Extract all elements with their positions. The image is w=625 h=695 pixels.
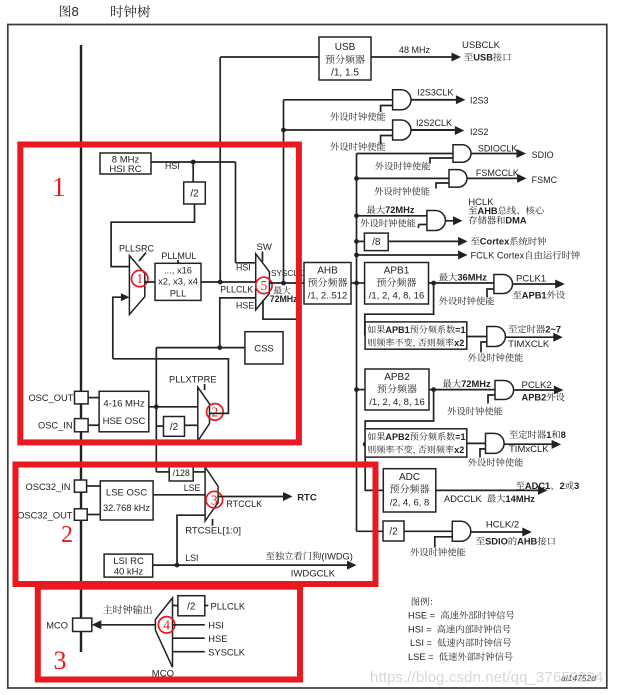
- svg-text:4: 4: [163, 617, 170, 632]
- svg-text:PLLCLK: PLLCLK: [211, 601, 246, 611]
- svg-text:SW: SW: [257, 242, 272, 253]
- svg-text:,: ,: [413, 445, 416, 455]
- svg-text:RTC: RTC: [297, 492, 317, 503]
- svg-text:OSC_OUT: OSC_OUT: [28, 393, 73, 403]
- svg-text:I2S2CLK: I2S2CLK: [416, 118, 452, 128]
- svg-text:SDIO: SDIO: [485, 537, 508, 547]
- svg-text:USB: USB: [335, 42, 356, 53]
- svg-text:/2: /2: [190, 189, 199, 200]
- svg-text:I2S3CLK: I2S3CLK: [417, 87, 453, 97]
- svg-text:ADC1: ADC1: [525, 481, 550, 491]
- svg-text:/2: /2: [170, 422, 179, 433]
- svg-text:DMA: DMA: [505, 216, 526, 226]
- svg-text:Cortex: Cortex: [480, 237, 510, 247]
- svg-text:14MHz: 14MHz: [505, 494, 535, 504]
- svg-text:AHB: AHB: [317, 266, 338, 277]
- svg-text:36MHz: 36MHz: [457, 273, 487, 283]
- svg-text:72MHz: 72MHz: [385, 205, 415, 215]
- svg-text:LSI =: LSI =: [410, 638, 432, 648]
- svg-text:/1, 2, 4, 8, 16: /1, 2, 4, 8, 16: [369, 291, 424, 302]
- svg-text:72MHz: 72MHz: [270, 294, 298, 304]
- svg-text:3: 3: [211, 492, 218, 507]
- svg-text:x2: x2: [454, 338, 464, 348]
- svg-text:3: 3: [574, 481, 579, 491]
- svg-text:8: 8: [561, 430, 566, 440]
- svg-text:APB2: APB2: [384, 372, 410, 383]
- svg-text:,: ,: [413, 338, 416, 348]
- svg-text:FSMC: FSMC: [532, 175, 558, 185]
- svg-text:/8: /8: [372, 237, 381, 248]
- svg-text:/128: /128: [173, 468, 190, 478]
- svg-text:PCLK1: PCLK1: [516, 274, 546, 285]
- svg-text:2: 2: [61, 522, 73, 548]
- svg-text:TIMxCLK: TIMxCLK: [509, 444, 549, 455]
- svg-text:/1, 1.5: /1, 1.5: [331, 68, 359, 79]
- svg-text:48 MHz: 48 MHz: [399, 45, 431, 55]
- svg-text:HSI: HSI: [236, 263, 251, 273]
- svg-text:LSE OSC: LSE OSC: [106, 488, 147, 499]
- svg-text:ai14752d: ai14752d: [561, 673, 596, 683]
- svg-text:MCO: MCO: [46, 621, 68, 631]
- svg-text:(IWDG): (IWDG): [321, 551, 353, 561]
- svg-text:HSI RC: HSI RC: [109, 164, 141, 175]
- svg-text:PLLXTPRE: PLLXTPRE: [169, 375, 217, 385]
- svg-text:4-16 MHz: 4-16 MHz: [103, 399, 144, 410]
- svg-text:USB: USB: [473, 53, 493, 63]
- svg-text:I2S3: I2S3: [470, 95, 489, 105]
- svg-text:HSI: HSI: [165, 161, 180, 171]
- svg-text:PCLK2: PCLK2: [522, 380, 552, 391]
- svg-text:/1, 2..512: /1, 2..512: [308, 291, 348, 302]
- svg-text:SDIOCLK: SDIOCLK: [478, 143, 518, 153]
- svg-text:PLLSRC: PLLSRC: [119, 244, 155, 254]
- svg-text:APB1: APB1: [384, 266, 410, 277]
- svg-text:LSI: LSI: [185, 553, 198, 563]
- svg-text:=1: =1: [455, 432, 465, 442]
- svg-text:USBCLK: USBCLK: [462, 40, 501, 51]
- svg-text:FSMCCLK: FSMCCLK: [476, 168, 519, 178]
- svg-text:HSE =: HSE =: [408, 611, 435, 621]
- svg-text:RTCSEL[1:0]: RTCSEL[1:0]: [185, 526, 241, 537]
- svg-text:APB2: APB2: [522, 392, 547, 402]
- svg-text:3: 3: [54, 646, 67, 675]
- svg-text:40 kHz: 40 kHz: [114, 567, 144, 578]
- svg-text:PLLMUL: PLLMUL: [161, 251, 196, 261]
- svg-text:LSE =: LSE =: [408, 652, 434, 662]
- svg-text:x2, x3, x4: x2, x3, x4: [158, 277, 198, 287]
- svg-text:2~7: 2~7: [545, 325, 561, 335]
- svg-text:HSE: HSE: [236, 301, 254, 311]
- svg-text:1: 1: [136, 271, 143, 286]
- svg-text:1: 1: [546, 430, 551, 440]
- svg-text:RTCCLK: RTCCLK: [226, 499, 262, 509]
- svg-text:I2S2: I2S2: [470, 127, 489, 137]
- svg-text:HSI: HSI: [208, 621, 224, 631]
- svg-text:32.768 kHz: 32.768 kHz: [103, 503, 150, 513]
- svg-text:HSE OSC: HSE OSC: [103, 416, 146, 427]
- svg-text:OSC32_OUT: OSC32_OUT: [17, 511, 73, 521]
- svg-text:FCLK Cortex: FCLK Cortex: [471, 251, 525, 261]
- svg-text:SDIO: SDIO: [532, 150, 554, 160]
- svg-text:HSI =: HSI =: [408, 625, 432, 635]
- svg-text:APB1: APB1: [385, 325, 409, 335]
- svg-text:APB2: APB2: [385, 432, 409, 442]
- svg-text:PLL: PLL: [170, 289, 187, 299]
- svg-text:1: 1: [52, 172, 66, 202]
- svg-text:/2: /2: [187, 602, 196, 613]
- svg-text:/2: /2: [389, 527, 398, 538]
- svg-text:/1, 2, 4, 8, 16: /1, 2, 4, 8, 16: [369, 397, 424, 408]
- svg-text:..., x16: ..., x16: [164, 266, 192, 276]
- svg-text:HSE: HSE: [208, 634, 227, 644]
- svg-text:=1: =1: [455, 325, 465, 335]
- svg-text:LSI RC: LSI RC: [113, 556, 144, 567]
- svg-text:72MHz: 72MHz: [461, 379, 491, 389]
- svg-text:CSS: CSS: [254, 344, 274, 355]
- svg-text:AHB: AHB: [478, 206, 498, 216]
- svg-text:PLLCLK: PLLCLK: [220, 284, 253, 294]
- svg-text:TIMXCLK: TIMXCLK: [508, 339, 550, 350]
- svg-text:OSC_IN: OSC_IN: [38, 421, 73, 431]
- svg-text:AHB: AHB: [517, 537, 537, 547]
- svg-text:ADCCLK: ADCCLK: [444, 494, 483, 504]
- svg-text:/2, 4, 6, 8: /2, 4, 6, 8: [390, 498, 430, 509]
- svg-text:2: 2: [560, 481, 565, 491]
- svg-text:8: 8: [72, 4, 79, 19]
- svg-text:OSC32_IN: OSC32_IN: [26, 482, 71, 492]
- svg-text:SYSCLK: SYSCLK: [208, 647, 245, 657]
- svg-text:LSE: LSE: [184, 483, 201, 493]
- svg-text:ADC: ADC: [399, 472, 420, 483]
- svg-text:x2: x2: [454, 445, 464, 455]
- svg-text:HCLK/2: HCLK/2: [486, 519, 519, 530]
- svg-text:5: 5: [261, 278, 268, 293]
- svg-text:2: 2: [212, 405, 219, 420]
- svg-text:IWDGCLK: IWDGCLK: [291, 568, 336, 579]
- svg-text:APB1: APB1: [522, 290, 547, 300]
